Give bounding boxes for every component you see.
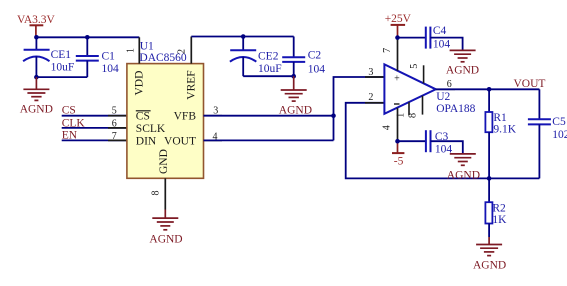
svg-text:+: + [394, 74, 400, 85]
svg-text:CS: CS [136, 111, 150, 123]
svg-text:10uF: 10uF [51, 61, 75, 73]
svg-text:DIN: DIN [136, 135, 157, 147]
node junction C1 top [85, 35, 90, 40]
ground AGND (C3) [447, 154, 480, 182]
pin 5 stub U1 [108, 115, 127, 117]
wire op-amp -in loop [346, 103, 540, 179]
svg-text:10uF: 10uF [258, 63, 282, 75]
wire V- to C3 [398, 140, 426, 142]
svg-text:1K: 1K [492, 214, 507, 226]
op-amp chip U1 DAC8560 body [127, 40, 204, 178]
svg-text:C2: C2 [308, 50, 322, 62]
svg-text:U1: U1 [140, 40, 154, 52]
svg-text:AGND: AGND [446, 64, 479, 76]
svg-text:VOUT: VOUT [514, 78, 546, 90]
node junction CE1 bottom [34, 75, 39, 80]
svg-text:VOUT: VOUT [164, 135, 196, 147]
pin 2 stub U1 (VREF) [190, 37, 192, 64]
resistor R2 [485, 178, 507, 237]
svg-text:+25V: +25V [385, 13, 412, 25]
wire VOUT to riser [204, 139, 334, 141]
svg-text:1: 1 [126, 48, 137, 53]
net label EN [62, 129, 127, 141]
ground AGND (R2) [473, 237, 506, 271]
pin 1 stub U1 (VDD) [138, 37, 140, 63]
pin 5 stub U2 [423, 65, 425, 83]
svg-text:AGND: AGND [20, 104, 53, 116]
svg-text:104: 104 [102, 63, 120, 75]
capacitor C2 [282, 37, 325, 77]
wire VREF top [191, 36, 293, 38]
pin 7 stub U2 (V+) [397, 38, 399, 71]
pin 8 stub U1 (GND) [164, 178, 166, 209]
power port -5 [392, 141, 404, 167]
svg-text:C5: C5 [552, 116, 566, 128]
ground AGND (C4) [446, 50, 479, 76]
svg-text:8: 8 [151, 191, 162, 196]
capacitor CE2 [230, 37, 282, 77]
svg-text:C1: C1 [102, 51, 116, 63]
wire bottom CE1-C1 [36, 76, 87, 78]
svg-text:5: 5 [112, 105, 117, 116]
wire bottom CE2-C2 [243, 75, 294, 77]
pin 4 stub U2 (V-) [397, 108, 399, 141]
svg-text:7: 7 [112, 131, 117, 142]
svg-text:-5: -5 [394, 156, 404, 168]
svg-text:VA3.3V: VA3.3V [17, 14, 56, 26]
svg-text:C4: C4 [433, 25, 447, 37]
ground AGND (C2) [279, 76, 312, 116]
svg-text:2: 2 [177, 49, 188, 54]
node junction V+ [395, 35, 400, 40]
pin 3 stub U1 (VFB) [204, 115, 223, 117]
svg-text:GND: GND [158, 149, 170, 174]
power port VA3.3V [17, 14, 56, 37]
pin 2 stub U2 [365, 102, 384, 104]
svg-text:AGND: AGND [149, 233, 182, 245]
resistor R1 [485, 89, 516, 178]
pin 8 stub U2 [422, 96, 424, 115]
svg-text:1: 1 [396, 113, 407, 118]
svg-text:VDD: VDD [134, 71, 146, 96]
node junction output/R1 [487, 87, 492, 92]
node junction feedback [487, 176, 492, 181]
pin 1 stub U2 [408, 102, 410, 115]
svg-text:U2: U2 [436, 91, 450, 103]
svg-text:104: 104 [308, 63, 326, 75]
svg-text:8: 8 [408, 113, 419, 118]
ground AGND (CE1) [20, 77, 53, 116]
capacitor C3 [426, 130, 453, 155]
svg-text:R1: R1 [493, 112, 507, 124]
svg-text:102: 102 [552, 129, 567, 141]
svg-text:7: 7 [382, 48, 393, 53]
svg-text:3: 3 [368, 67, 373, 78]
pin 3 stub U2 [365, 76, 384, 78]
wire riser to op-amp +in [334, 77, 385, 140]
svg-text:4: 4 [381, 125, 392, 130]
wire op-amp output [436, 88, 540, 90]
capacitor CE1 [23, 37, 74, 77]
pin 4 stub U1 (VOUT) [204, 139, 223, 141]
capacitor C1 [76, 37, 119, 77]
svg-text:6: 6 [112, 119, 117, 130]
svg-text:5: 5 [409, 64, 420, 69]
wire C3 to ground [431, 141, 463, 154]
svg-text:SCLK: SCLK [136, 123, 166, 135]
pin 7 stub U1 [108, 139, 127, 141]
node junction V- [395, 139, 400, 144]
svg-text:CE2: CE2 [258, 51, 279, 63]
node junction C2 bottom [291, 74, 296, 79]
wire VDD top [36, 36, 139, 38]
svg-text:3: 3 [213, 105, 218, 116]
svg-text:104: 104 [433, 38, 451, 50]
power port +25V [385, 13, 412, 38]
svg-text:VREF: VREF [186, 70, 198, 99]
node junction CE1 top [34, 35, 39, 40]
net label CS [62, 105, 127, 117]
wire VFB to node [204, 115, 334, 117]
svg-text:R2: R2 [492, 202, 506, 214]
svg-text:CS: CS [62, 105, 76, 117]
pin 6 stub U2 (out) [436, 88, 455, 90]
capacitor C4 [426, 25, 451, 50]
svg-text:104: 104 [435, 144, 453, 156]
svg-text:CE1: CE1 [51, 49, 72, 61]
wire C4 to ground [430, 38, 462, 51]
pin 6 stub U1 [108, 127, 127, 129]
op-amp U2 triangle [384, 64, 475, 115]
node junction VFB [331, 113, 336, 118]
ground AGND (U1 pin8) [149, 210, 182, 246]
node junction CE2 top [241, 34, 246, 39]
svg-text:9.1K: 9.1K [493, 124, 516, 136]
svg-text:2: 2 [368, 92, 373, 103]
net label CLK [62, 118, 127, 130]
capacitor C5 [528, 89, 567, 178]
svg-text:AGND: AGND [447, 170, 480, 182]
wire V+ to C4 [398, 37, 426, 39]
svg-text:AGND: AGND [473, 259, 506, 271]
svg-text:VFB: VFB [174, 111, 197, 123]
svg-text:OPA188: OPA188 [436, 103, 475, 115]
